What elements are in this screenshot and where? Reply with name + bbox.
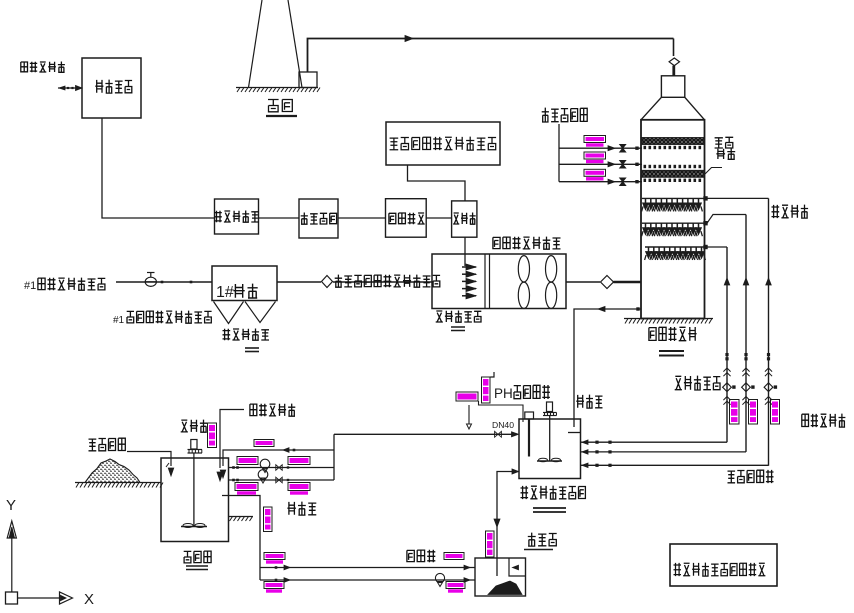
ground hatch under pile [75, 483, 163, 488]
tag: slurry LR [288, 483, 310, 495]
bracket PH [491, 372, 495, 377]
junction dots on flue line [161, 281, 193, 284]
node: spray3 wall connection [703, 245, 707, 249]
wire: circ tank drain to sed tank [494, 469, 519, 576]
box: pressure reducing valve group [299, 199, 338, 238]
wire: flue duct chimney to tower top [308, 36, 674, 73]
MgO powder pile [85, 459, 140, 483]
svg-text:1#: 1# [216, 284, 234, 301]
agitator impeller circ tank [537, 458, 562, 462]
tag: PH vertical [482, 377, 491, 403]
label: 1# boiler [216, 284, 258, 301]
reactor mixing ellipses [518, 256, 556, 309]
label: bag dust collector [223, 329, 270, 341]
tag: slurry UR [288, 457, 310, 465]
tower body [641, 120, 705, 319]
label: LOX storage tank [95, 80, 132, 94]
demister crosshatch band lower [642, 170, 704, 177]
wire: slurry feed line into circ tank [334, 433, 513, 435]
tag: pump 746 [749, 400, 758, 425]
arrow on drain line [598, 307, 640, 312]
axis X label [84, 591, 94, 608]
node: spray1 wall connection [703, 196, 707, 200]
sed tank weir box [509, 558, 526, 576]
box: ozone workshop [386, 199, 427, 238]
tower outlet diamond valve [669, 58, 679, 76]
tag: water line 3 instrument [584, 169, 606, 180]
spray layer 1 nozzles [642, 198, 704, 211]
double underline tower [659, 351, 684, 356]
wire: control system to control valve [408, 165, 466, 201]
wire: clear liquid line upper [260, 567, 475, 569]
underline sed tank [524, 549, 553, 551]
svg-text:#1: #1 [113, 315, 125, 326]
box: ozone denitration power and control system [386, 122, 500, 165]
label: lower circulation pumps [675, 376, 721, 390]
label: pressure reducing valve group [301, 213, 337, 225]
label: desulf denit circulation tank [521, 486, 586, 500]
label: chimney [268, 100, 292, 112]
up arrows on risers [724, 278, 771, 285]
label: ID fan and fan outlet flue damper [335, 275, 440, 288]
label: clear liquid pumps [407, 550, 435, 562]
underline prep tank [186, 566, 208, 570]
tag: water line 1 instrument [584, 136, 606, 147]
wire: duct elbow into diamond [673, 39, 675, 57]
demister dot band lower [644, 179, 702, 182]
valves and arrows water line 1 [608, 144, 639, 152]
agitator mount circ tank [543, 413, 557, 416]
tag: drain vertical [264, 507, 273, 532]
label: agitator (circ tank) [576, 395, 602, 409]
svg-text:#1: #1 [24, 280, 36, 292]
agitator impeller prep tank [181, 524, 207, 528]
tag: clear pump LL [264, 582, 284, 593]
label: middle circulation pumps [728, 470, 774, 483]
tag: sed feed vertical [486, 531, 495, 557]
ground hatch under chimney [236, 88, 320, 93]
label: PH controller [494, 385, 550, 401]
wire: water line 2 [559, 163, 642, 165]
label: ozone workshop [389, 213, 425, 224]
wire: process water header [558, 124, 560, 182]
clear pump symbols [275, 565, 470, 586]
pump column lower (x727) [723, 247, 736, 442]
chimney flue inlet box [299, 72, 317, 88]
tank: LOX storage tank box [82, 58, 141, 118]
wire: damper to reactor [333, 281, 432, 283]
tag: slurry UL [237, 457, 258, 465]
wire: ozone workshop to control valve [426, 217, 451, 219]
valve: boiler inlet damper [145, 273, 156, 287]
ground hatch right of prep tank [229, 517, 254, 522]
label: ozone denitration power and control system [390, 137, 497, 151]
label: demister [715, 137, 736, 159]
wire: diamond2 to tower inlet [614, 281, 642, 284]
wire: boiler to damper diamond [277, 281, 321, 283]
agitator motor prep tank [191, 440, 197, 450]
valve on DN40 line [495, 431, 502, 437]
spray layer 2 nozzles [642, 223, 704, 236]
axis origin box [6, 592, 18, 604]
tank: desulf denit circulation tank [519, 419, 581, 479]
arrows into tank line3 [582, 463, 612, 468]
box: ozone mixing reactor [432, 254, 566, 309]
label: vaporizer [215, 211, 259, 223]
tag: clear pump UL [264, 553, 285, 564]
tag: PH horizontal [456, 392, 478, 401]
wire: slurry suction upper [229, 467, 335, 469]
label: desulf denit tower [649, 327, 697, 341]
label: magnesium oxide powder [89, 438, 126, 451]
arrow into circ tank [512, 432, 519, 437]
tower top cap box [661, 76, 684, 98]
tag: slurry LL [235, 483, 258, 495]
agitator mount prep tank [188, 450, 203, 459]
box: vaporizer [215, 199, 259, 234]
valve dots suction [232, 466, 239, 481]
label: boiler outlet flue damper [113, 311, 212, 326]
valve: damper diamond 2 [601, 276, 614, 289]
tag: clear pump LR [446, 582, 465, 593]
wire: slurry discharge collector [333, 434, 335, 480]
double underline bag filter [245, 348, 259, 352]
wire: slurry return into prep tank [220, 450, 334, 478]
label: desulf island power and control system [674, 563, 766, 577]
wire: water line 1 [559, 147, 642, 149]
ground hatch under tower [624, 319, 713, 324]
tank: slurry preparation tank [161, 458, 229, 542]
wire: pump746 to tank [581, 451, 747, 453]
bag filter hopper V1 [214, 302, 244, 324]
wire: spray1 to riser x768 [707, 197, 769, 199]
wire: flue gas to boiler [116, 281, 212, 283]
label: spray layers [772, 205, 809, 219]
pump: slurry pump lower [258, 470, 289, 483]
chimney stack outline [249, 0, 303, 88]
wire: PH instrument lines [467, 401, 524, 429]
valves and arrows water line 2 [608, 161, 639, 169]
wire: pump727 to tank [581, 441, 728, 443]
tag: pump 768 [771, 400, 780, 425]
agitator shaft prep tank [193, 458, 195, 526]
wire: spray2 to riser x746 [707, 215, 746, 224]
tag: prep agitator [208, 423, 217, 448]
sludge pile in sed tank [488, 581, 522, 595]
wire: water line 3 [559, 181, 642, 183]
valves and arrows water line 3 [608, 178, 639, 186]
underline chimney label [266, 115, 297, 117]
box: boiler no.1 [212, 266, 277, 301]
arrows into tank line1 [582, 440, 612, 445]
label: ozone distributor [436, 311, 482, 323]
label: liquid oxygen delivery truck [21, 62, 65, 73]
wire: drain dip tube in tank [568, 419, 580, 433]
leader: MgO to tank [127, 452, 174, 477]
label: DN40 [492, 420, 514, 430]
tag: water line 2 instrument [584, 152, 606, 163]
label: sedimentation tank [528, 533, 557, 547]
wire: prep tank drain to clear pumps [222, 496, 260, 581]
double underline circ tank [533, 508, 566, 512]
wire: reactor outlet to tower [566, 281, 600, 283]
axis X line [18, 597, 61, 599]
axis X arrow [60, 592, 73, 604]
label: slurry prep tank [184, 551, 211, 563]
wire: LOX tank down to vaporizer [102, 118, 214, 218]
demister dot band mid [644, 165, 702, 168]
wire: clear liquid line lower [260, 579, 475, 581]
svg-text:Y: Y [6, 497, 16, 514]
label: industrial makeup water [250, 404, 295, 417]
ozone distributor arrows [462, 264, 476, 299]
svg-text:PH: PH [494, 386, 513, 401]
pump: slurry pump upper [260, 459, 289, 472]
node: spray2 wall connection [703, 221, 707, 225]
demister crosshatch band upper [642, 138, 704, 145]
wire: truck to LOX tank with arrows [58, 86, 82, 91]
wire: valves to ozone workshop [338, 217, 386, 219]
tag: clear pump UR [444, 553, 464, 560]
axis Y label [6, 497, 16, 514]
tank: sedimentation tank [475, 558, 526, 596]
wire: slurry suction lower [229, 479, 335, 481]
agitator motor circ tank [547, 402, 553, 412]
label: slurry pumps [287, 502, 316, 515]
arrow on return line [283, 448, 295, 453]
ph probe on circ tank [525, 412, 534, 457]
valve: ID fan damper diamond 1 [322, 276, 333, 288]
demister dot band upper [644, 146, 702, 149]
agitator shaft circ tank [549, 416, 551, 462]
tag: pump 727 [730, 400, 740, 425]
wire: pump768 to tank [581, 464, 769, 466]
wire: tower drain to circ tank [574, 309, 641, 419]
pump column upper (x768.5) [764, 198, 777, 465]
arrows into tank line2 [582, 450, 612, 455]
label: agitator (prep tank) [181, 420, 207, 433]
underline ozone distributor [451, 327, 465, 331]
label: upper circulation pumps [802, 414, 846, 428]
pump column middle (x746) [742, 215, 755, 452]
wire: vaporizer to pressure valves [259, 217, 300, 219]
label: #1 boiler economizer flue gas [24, 278, 105, 292]
spray layer 3 nozzles [645, 247, 706, 260]
wire: makeup water into prep tank [217, 410, 244, 482]
tag: return line [254, 440, 274, 447]
wire: spray3 to riser x727 [707, 246, 727, 248]
svg-text:X: X [84, 591, 94, 608]
label: plant process water [542, 108, 588, 122]
svg-text:DN40: DN40 [492, 420, 514, 430]
label: control valve [453, 213, 476, 225]
box: control valve [452, 201, 477, 237]
reactor inner dividers [485, 254, 490, 309]
bag filter hopper V2 [245, 302, 276, 323]
tower neck trapezoid [641, 97, 705, 120]
wire: control valve down to reactor [464, 237, 466, 266]
box: desulf island power and control system [670, 544, 777, 586]
axis Y arrow [7, 521, 16, 592]
label: ozone mixing reactor [493, 237, 561, 250]
leader: demister [704, 168, 722, 176]
